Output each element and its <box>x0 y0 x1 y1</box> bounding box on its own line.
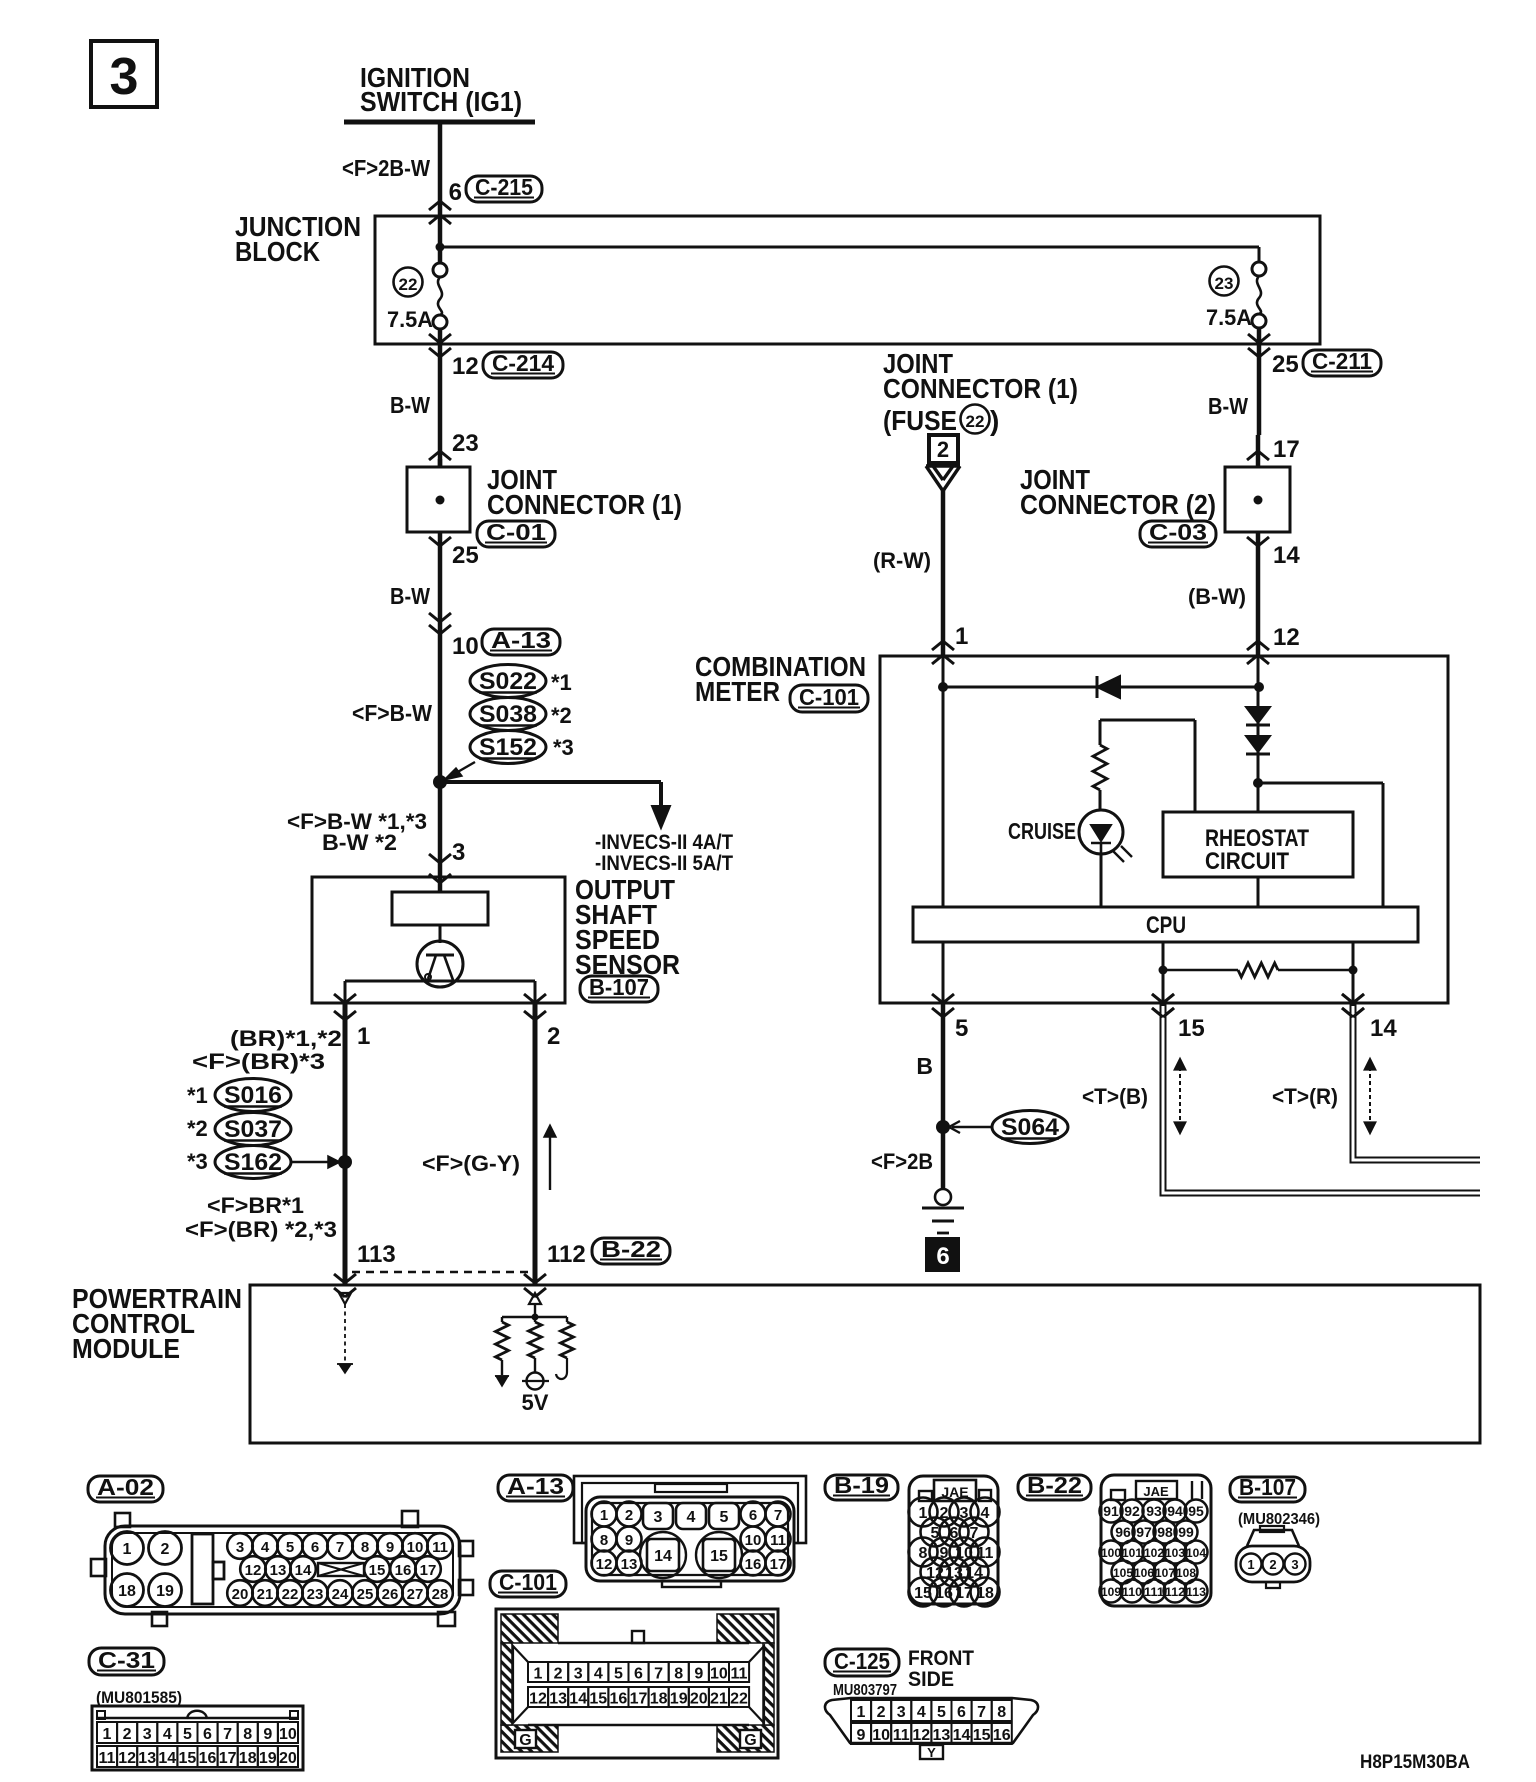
svg-text:16: 16 <box>993 1727 1011 1744</box>
svg-text:13: 13 <box>549 1691 567 1708</box>
svg-text:<F>2B-W: <F>2B-W <box>342 155 430 181</box>
svg-text:C-101: C-101 <box>499 1569 557 1595</box>
svg-text:C-101: C-101 <box>799 684 859 710</box>
svg-text:<F>B-W: <F>B-W <box>352 700 432 726</box>
svg-text:2: 2 <box>937 437 949 462</box>
svg-text:*3: *3 <box>187 1149 208 1174</box>
svg-text:H8P15M30BA: H8P15M30BA <box>1360 1752 1470 1773</box>
svg-text:93: 93 <box>1146 1503 1162 1519</box>
svg-text:B-22: B-22 <box>601 1236 661 1262</box>
svg-text:S162: S162 <box>224 1149 282 1176</box>
svg-text:4: 4 <box>687 1509 696 1526</box>
svg-text:1: 1 <box>857 1704 866 1721</box>
svg-text:17: 17 <box>1273 436 1300 463</box>
svg-text:26: 26 <box>382 1586 399 1603</box>
svg-text:5: 5 <box>955 1015 968 1042</box>
svg-text:<F>(BR)*3: <F>(BR)*3 <box>192 1049 325 1074</box>
svg-text:<T>(R): <T>(R) <box>1272 1084 1338 1109</box>
svg-text:20: 20 <box>232 1586 249 1603</box>
svg-text:13: 13 <box>270 1562 287 1579</box>
svg-text:BLOCK: BLOCK <box>235 236 320 267</box>
svg-text:A-02: A-02 <box>97 1474 154 1500</box>
svg-text:110: 110 <box>1122 1585 1142 1599</box>
svg-text:16: 16 <box>395 1562 412 1579</box>
svg-text:94: 94 <box>1167 1503 1183 1519</box>
svg-text:<F>(BR) *2,*3: <F>(BR) *2,*3 <box>185 1217 337 1242</box>
svg-text:3: 3 <box>654 1509 663 1526</box>
svg-text:24: 24 <box>332 1586 349 1603</box>
svg-text:7: 7 <box>336 1539 344 1556</box>
svg-text:96: 96 <box>1115 1524 1131 1540</box>
svg-text:22: 22 <box>399 275 418 294</box>
svg-text:7: 7 <box>774 1507 782 1524</box>
svg-text:4: 4 <box>163 1726 172 1743</box>
svg-text:2: 2 <box>161 1541 170 1558</box>
svg-text:2: 2 <box>547 1023 560 1050</box>
svg-text:12: 12 <box>596 1556 613 1573</box>
svg-text:MU803797: MU803797 <box>833 1682 897 1699</box>
svg-text:14: 14 <box>1273 542 1300 569</box>
svg-text:23: 23 <box>452 430 479 457</box>
svg-text:13: 13 <box>138 1750 156 1767</box>
svg-text:6: 6 <box>203 1726 212 1743</box>
svg-text:*3: *3 <box>553 735 574 760</box>
svg-text:109: 109 <box>1101 1585 1121 1599</box>
svg-text:2: 2 <box>625 1507 633 1524</box>
svg-text:19: 19 <box>156 1583 174 1600</box>
svg-text:JAE: JAE <box>1143 1484 1169 1499</box>
svg-text:2: 2 <box>123 1726 132 1743</box>
svg-text:4: 4 <box>917 1704 926 1721</box>
svg-text:3: 3 <box>236 1539 244 1556</box>
svg-text:Y: Y <box>927 1745 936 1760</box>
svg-text:16: 16 <box>199 1750 217 1767</box>
svg-text:7: 7 <box>977 1704 986 1721</box>
svg-text:99: 99 <box>1178 1524 1194 1540</box>
svg-text:10: 10 <box>407 1539 424 1556</box>
svg-text:B-107: B-107 <box>589 974 649 1000</box>
svg-text:3: 3 <box>143 1726 152 1743</box>
svg-text:CRUISE: CRUISE <box>1008 818 1076 844</box>
svg-text:<F>(G-Y): <F>(G-Y) <box>422 1151 520 1176</box>
svg-text:8: 8 <box>361 1539 369 1556</box>
svg-text:7: 7 <box>654 1666 663 1683</box>
svg-text:106: 106 <box>1134 1566 1154 1580</box>
svg-text:10: 10 <box>872 1727 890 1744</box>
svg-text:1: 1 <box>103 1726 112 1743</box>
svg-text:1: 1 <box>955 623 968 650</box>
svg-text:6: 6 <box>957 1704 966 1721</box>
svg-text:FRONT: FRONT <box>908 1647 974 1670</box>
svg-text:5V: 5V <box>522 1390 549 1415</box>
svg-text:B: B <box>916 1053 933 1079</box>
svg-text:1: 1 <box>919 1505 928 1522</box>
svg-text:16: 16 <box>610 1691 628 1708</box>
svg-text:S064: S064 <box>1001 1114 1060 1141</box>
svg-text:14: 14 <box>569 1691 587 1708</box>
svg-text:11: 11 <box>731 1666 748 1683</box>
svg-text:18: 18 <box>976 1585 994 1602</box>
svg-text:C-214: C-214 <box>492 350 554 376</box>
svg-text:17: 17 <box>630 1691 648 1708</box>
svg-text:11: 11 <box>977 1545 994 1562</box>
svg-text:B-107: B-107 <box>1239 1474 1296 1500</box>
svg-text:5: 5 <box>720 1509 729 1526</box>
svg-text:SIDE: SIDE <box>908 1668 954 1691</box>
svg-text:2: 2 <box>877 1704 886 1721</box>
svg-text:108: 108 <box>1176 1566 1196 1580</box>
svg-text:15: 15 <box>369 1562 386 1579</box>
svg-text:14: 14 <box>1370 1015 1397 1042</box>
svg-text:2: 2 <box>940 1505 949 1522</box>
svg-text:9: 9 <box>857 1727 866 1744</box>
svg-text:17: 17 <box>420 1562 437 1579</box>
svg-text:5: 5 <box>937 1704 946 1721</box>
svg-text:S152: S152 <box>479 734 537 761</box>
svg-text:19: 19 <box>259 1750 277 1767</box>
svg-text:13: 13 <box>933 1727 951 1744</box>
svg-text:1: 1 <box>357 1023 370 1050</box>
svg-text:102: 102 <box>1144 1546 1164 1560</box>
svg-text:9: 9 <box>263 1726 272 1743</box>
svg-text:10: 10 <box>452 633 479 660</box>
svg-text:14: 14 <box>953 1727 971 1744</box>
svg-text:23: 23 <box>1215 274 1234 293</box>
svg-text:C-215: C-215 <box>475 174 533 200</box>
svg-text:103: 103 <box>1165 1546 1185 1560</box>
svg-text:A-13: A-13 <box>491 627 551 653</box>
svg-text:12: 12 <box>452 353 479 380</box>
svg-text:17: 17 <box>219 1750 237 1767</box>
svg-text:G: G <box>519 1732 531 1749</box>
svg-text:6: 6 <box>634 1666 643 1683</box>
svg-text:22: 22 <box>966 412 985 431</box>
svg-text:2: 2 <box>554 1666 563 1683</box>
svg-text:(FUSE: (FUSE <box>883 405 957 436</box>
svg-text:112: 112 <box>547 1241 586 1268</box>
svg-text:(R-W): (R-W) <box>873 548 931 573</box>
svg-text:8: 8 <box>919 1545 928 1562</box>
svg-text:1: 1 <box>600 1507 608 1524</box>
svg-text:17: 17 <box>955 1585 973 1602</box>
svg-text:7: 7 <box>223 1726 232 1743</box>
svg-text:22: 22 <box>730 1691 748 1708</box>
svg-text:18: 18 <box>650 1691 668 1708</box>
svg-text:112: 112 <box>1165 1585 1185 1599</box>
svg-text:CONNECTOR (1): CONNECTOR (1) <box>487 489 682 520</box>
svg-text:(B-W): (B-W) <box>1188 584 1246 609</box>
svg-text:100: 100 <box>1101 1546 1121 1560</box>
svg-text:1: 1 <box>1247 1557 1254 1572</box>
svg-text:5: 5 <box>614 1666 623 1683</box>
svg-text:25: 25 <box>452 542 479 569</box>
svg-text:15: 15 <box>1178 1015 1205 1042</box>
svg-text:19: 19 <box>670 1691 688 1708</box>
svg-text:14: 14 <box>654 1548 672 1565</box>
svg-text:8: 8 <box>674 1666 683 1683</box>
svg-text:SWITCH (IG1): SWITCH (IG1) <box>360 86 522 117</box>
svg-text:<F>2B: <F>2B <box>871 1149 933 1174</box>
svg-text:11: 11 <box>99 1750 116 1767</box>
svg-text:1: 1 <box>123 1541 132 1558</box>
svg-text:C-125: C-125 <box>834 1648 890 1674</box>
svg-text:9: 9 <box>940 1545 949 1562</box>
svg-text:S038: S038 <box>479 701 537 728</box>
svg-text:92: 92 <box>1124 1503 1140 1519</box>
svg-text:CONNECTOR (2): CONNECTOR (2) <box>1020 489 1216 520</box>
svg-text:9: 9 <box>386 1539 394 1556</box>
svg-text:113: 113 <box>1186 1585 1206 1599</box>
svg-text:*2: *2 <box>551 703 572 728</box>
svg-text:10: 10 <box>955 1545 973 1562</box>
svg-text:G: G <box>744 1732 756 1749</box>
svg-text:111: 111 <box>1144 1585 1164 1599</box>
svg-text:101: 101 <box>1122 1546 1142 1560</box>
svg-text:MODULE: MODULE <box>72 1333 180 1364</box>
svg-text:98: 98 <box>1157 1524 1173 1540</box>
svg-text:12: 12 <box>529 1691 547 1708</box>
svg-text:20: 20 <box>279 1750 297 1767</box>
svg-text:15: 15 <box>589 1691 607 1708</box>
svg-text:16: 16 <box>935 1585 953 1602</box>
svg-text:4: 4 <box>981 1505 990 1522</box>
svg-text:(MU801585): (MU801585) <box>96 1688 182 1707</box>
svg-text:16: 16 <box>745 1556 762 1573</box>
svg-text:*1: *1 <box>551 670 572 695</box>
svg-text:C-31: C-31 <box>98 1647 155 1673</box>
svg-text:14: 14 <box>158 1750 176 1767</box>
svg-text:3: 3 <box>897 1704 906 1721</box>
svg-text:C-01: C-01 <box>486 519 546 545</box>
svg-text:9: 9 <box>625 1532 633 1549</box>
svg-text:8: 8 <box>997 1704 1006 1721</box>
svg-text:97: 97 <box>1136 1524 1152 1540</box>
svg-text:21: 21 <box>257 1586 274 1603</box>
svg-text:6: 6 <box>749 1507 757 1524</box>
svg-text:3: 3 <box>574 1666 583 1683</box>
svg-text:113: 113 <box>357 1241 396 1268</box>
svg-text:15: 15 <box>973 1727 991 1744</box>
svg-text:6: 6 <box>311 1539 319 1556</box>
svg-text:12: 12 <box>912 1727 930 1744</box>
svg-text:8: 8 <box>600 1532 608 1549</box>
svg-text:13: 13 <box>621 1556 638 1573</box>
svg-text:10: 10 <box>710 1666 728 1683</box>
svg-text:11: 11 <box>893 1727 910 1744</box>
svg-text:5: 5 <box>183 1726 192 1743</box>
svg-text:21: 21 <box>710 1691 728 1708</box>
svg-text:5: 5 <box>931 1525 940 1542</box>
svg-text:B-22: B-22 <box>1027 1472 1082 1498</box>
svg-text:25: 25 <box>357 1586 374 1603</box>
svg-text:6: 6 <box>449 179 462 206</box>
svg-text:91: 91 <box>1103 1503 1119 1519</box>
svg-text:S022: S022 <box>479 668 537 695</box>
svg-text:(BR)*1,*2: (BR)*1,*2 <box>230 1026 342 1051</box>
svg-text:12: 12 <box>1273 624 1300 651</box>
svg-text:2: 2 <box>1269 1557 1276 1572</box>
svg-text:S037: S037 <box>224 1116 282 1143</box>
svg-text:9: 9 <box>694 1666 703 1683</box>
svg-text:10: 10 <box>745 1532 762 1549</box>
svg-text:B-W: B-W <box>390 392 430 418</box>
svg-text:8: 8 <box>243 1726 252 1743</box>
svg-text:*2: *2 <box>187 1116 208 1141</box>
svg-text:-INVECS-II 4A/T: -INVECS-II 4A/T <box>595 831 733 854</box>
svg-text:-INVECS-II 5A/T: -INVECS-II 5A/T <box>595 852 733 875</box>
svg-text:S016: S016 <box>224 1082 282 1109</box>
svg-text:6: 6 <box>950 1525 959 1542</box>
svg-text:B-W *2: B-W *2 <box>322 830 397 855</box>
svg-text:CPU: CPU <box>1146 912 1186 939</box>
svg-text:13: 13 <box>945 1565 963 1582</box>
svg-text:12: 12 <box>245 1562 262 1579</box>
svg-text:11: 11 <box>432 1539 448 1556</box>
svg-text:7: 7 <box>970 1525 979 1542</box>
svg-text:4: 4 <box>261 1539 270 1556</box>
svg-text:METER: METER <box>695 676 780 707</box>
svg-text:15: 15 <box>914 1585 932 1602</box>
svg-text:3: 3 <box>110 48 139 106</box>
svg-text:C-211: C-211 <box>1312 348 1372 374</box>
svg-text:A-13: A-13 <box>507 1473 564 1499</box>
svg-text:12: 12 <box>926 1565 944 1582</box>
svg-text:C-03: C-03 <box>1149 519 1207 545</box>
svg-text:4: 4 <box>594 1666 603 1683</box>
svg-text:3: 3 <box>960 1505 969 1522</box>
svg-text:CONNECTOR (1): CONNECTOR (1) <box>883 373 1078 404</box>
svg-text:105: 105 <box>1113 1566 1133 1580</box>
svg-text:<F>BR*1: <F>BR*1 <box>207 1193 304 1218</box>
svg-text:B-W: B-W <box>390 583 430 609</box>
svg-text:B-W: B-W <box>1208 393 1248 419</box>
svg-text:20: 20 <box>690 1691 708 1708</box>
svg-text:3: 3 <box>1291 1557 1298 1572</box>
svg-text:15: 15 <box>710 1548 728 1565</box>
svg-text:25: 25 <box>1272 351 1299 378</box>
svg-text:*1: *1 <box>187 1083 208 1108</box>
svg-text:7.5A: 7.5A <box>387 307 433 332</box>
svg-text:11: 11 <box>770 1532 786 1549</box>
svg-text:): ) <box>990 405 999 436</box>
svg-text:14: 14 <box>965 1565 983 1582</box>
svg-text:1: 1 <box>534 1666 543 1683</box>
svg-text:18: 18 <box>239 1750 257 1767</box>
svg-text:22: 22 <box>282 1586 299 1603</box>
svg-text:28: 28 <box>432 1586 449 1603</box>
svg-text:10: 10 <box>279 1726 297 1743</box>
svg-text:12: 12 <box>118 1750 136 1767</box>
svg-text:5: 5 <box>286 1539 294 1556</box>
svg-text:15: 15 <box>179 1750 197 1767</box>
svg-text:107: 107 <box>1155 1566 1175 1580</box>
svg-text:CIRCUIT: CIRCUIT <box>1205 848 1289 875</box>
svg-text:18: 18 <box>118 1583 136 1600</box>
svg-text:23: 23 <box>307 1586 324 1603</box>
svg-text:27: 27 <box>407 1586 424 1603</box>
svg-text:3: 3 <box>452 839 465 866</box>
svg-text:B-19: B-19 <box>834 1472 889 1498</box>
svg-text:14: 14 <box>295 1562 312 1579</box>
svg-text:95: 95 <box>1188 1503 1204 1519</box>
svg-text:<T>(B): <T>(B) <box>1082 1084 1148 1109</box>
svg-text:7.5A: 7.5A <box>1206 305 1252 330</box>
svg-text:6: 6 <box>936 1243 949 1270</box>
svg-text:17: 17 <box>770 1556 787 1573</box>
svg-text:104: 104 <box>1186 1546 1206 1560</box>
